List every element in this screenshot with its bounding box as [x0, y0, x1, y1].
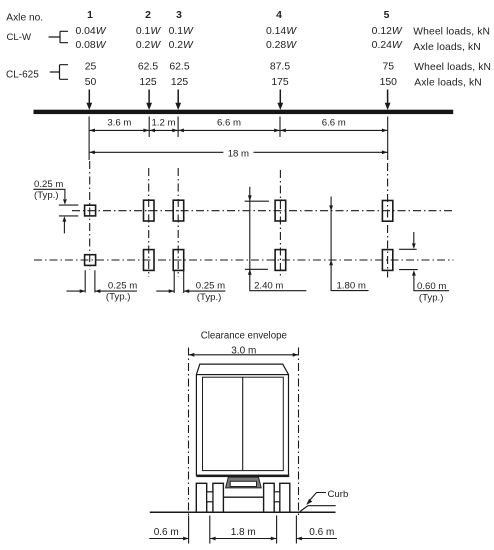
- svg-text:0.6 m: 0.6 m: [309, 527, 334, 538]
- dimension 1.2 m: [149, 117, 178, 132]
- dimension 6.6 m (4-5): [280, 117, 388, 132]
- truck outer box: [196, 375, 288, 476]
- clearance envelope line right: [298, 348, 300, 517]
- svg-text:Curb: Curb: [328, 489, 349, 500]
- svg-text:3: 3: [176, 10, 182, 21]
- dimension 0.25 m (Typ.) below axle 1: [67, 270, 138, 302]
- load arrow axle 4: [277, 90, 283, 111]
- dimension 0.6 m right: [296, 527, 337, 541]
- wheel rear left outer: [196, 483, 206, 512]
- tick at axle 3: [177, 117, 179, 138]
- svg-text:125: 125: [139, 77, 157, 88]
- wheel axle5 lower: [382, 250, 392, 271]
- svg-text:CL-W: CL-W: [7, 32, 32, 43]
- svg-text:CL-625: CL-625: [6, 70, 39, 81]
- svg-text:5: 5: [384, 10, 390, 21]
- axle housing trapezoid: [226, 477, 262, 488]
- dimension 1.8 m: [210, 527, 277, 541]
- dimension 3.6 m: [89, 117, 149, 132]
- truck door divider: [242, 377, 244, 470]
- wheel axle1 lower (square): [85, 255, 96, 266]
- svg-text:6.6 m: 6.6 m: [322, 117, 346, 128]
- curb label and leader: [306, 489, 348, 505]
- wheel axle2 lower: [144, 250, 155, 271]
- dimension 0.25 m (Typ.) below axle 3: [156, 270, 225, 303]
- svg-text:Axle loads, kN: Axle loads, kN: [414, 78, 482, 89]
- svg-text:125: 125: [171, 77, 189, 88]
- svg-text:0.04W: 0.04W: [75, 26, 106, 37]
- tick at axle 2: [148, 117, 150, 138]
- axle 3 centerline (vertical): [177, 168, 179, 277]
- axle bar: [223, 496, 263, 498]
- lower wheel line centerline: [34, 259, 454, 261]
- CL-W wheel loads row: [75, 26, 402, 37]
- svg-text:0.2W: 0.2W: [136, 40, 161, 51]
- svg-text:62.5: 62.5: [169, 61, 189, 72]
- curb: [300, 506, 336, 512]
- svg-text:0.08W: 0.08W: [75, 40, 106, 51]
- dimension 0.25 m (Typ.) upper-left: [33, 179, 78, 233]
- axle 1 centerline (vertical): [89, 161, 91, 270]
- ground line: [150, 511, 336, 513]
- wheel rear left inner: [213, 483, 224, 512]
- svg-text:0.28W: 0.28W: [266, 40, 297, 51]
- svg-text:(Typ.): (Typ.): [106, 292, 131, 303]
- svg-text:175: 175: [271, 77, 289, 88]
- wheel axle4 lower: [275, 250, 286, 271]
- svg-text:Wheel loads, kN: Wheel loads, kN: [414, 62, 491, 73]
- svg-text:87.5: 87.5: [270, 61, 290, 72]
- svg-text:(Typ.): (Typ.): [197, 292, 222, 303]
- upper wheel line centerline: [72, 210, 454, 212]
- svg-text:1.80 m: 1.80 m: [337, 281, 366, 292]
- svg-text:150: 150: [380, 77, 398, 88]
- CL-W axle loads row: [75, 40, 402, 51]
- extension line right wheel center: [276, 516, 278, 544]
- svg-text:0.1W: 0.1W: [136, 26, 161, 37]
- svg-text:0.1W: 0.1W: [169, 26, 194, 37]
- CL-625 bracket: [50, 65, 68, 80]
- svg-text:6.6 m: 6.6 m: [217, 117, 241, 128]
- wheel axle4 upper: [275, 200, 286, 221]
- svg-text:75: 75: [383, 61, 395, 72]
- CL-625 axle loads row: [85, 77, 397, 88]
- hub right: [274, 492, 280, 502]
- wheel axle1 upper (square): [85, 205, 96, 216]
- svg-text:1.2 m: 1.2 m: [152, 117, 176, 128]
- svg-text:Wheel loads, kN: Wheel loads, kN: [413, 27, 490, 38]
- load arrow axle 2: [146, 90, 152, 111]
- extension line left wheel center: [209, 516, 211, 544]
- dimension 6.6 m (3-4): [178, 117, 280, 132]
- axle 2 centerline (vertical): [148, 168, 150, 277]
- svg-text:1.8 m: 1.8 m: [231, 527, 256, 538]
- svg-text:0.60 m: 0.60 m: [417, 281, 446, 292]
- truck floor (thick): [196, 475, 289, 478]
- dimension 18 m: [89, 148, 388, 159]
- axle 4 centerline (vertical): [279, 170, 281, 278]
- svg-text:Axle no.: Axle no.: [6, 12, 43, 23]
- truck inner box: [203, 377, 284, 470]
- wheel axle3 upper: [173, 200, 184, 221]
- beam (deck line): [34, 110, 454, 114]
- svg-text:Clearance envelope: Clearance envelope: [201, 330, 287, 341]
- CL-625 wheel loads row: [85, 61, 395, 72]
- svg-text:0.25 m: 0.25 m: [108, 281, 137, 292]
- wheel rear right outer: [280, 483, 290, 512]
- svg-text:2.40 m: 2.40 m: [254, 281, 283, 292]
- svg-text:0.25 m: 0.25 m: [34, 179, 63, 190]
- dimension 0.60 m (Typ.): [399, 232, 449, 303]
- svg-text:0.12W: 0.12W: [372, 26, 403, 37]
- wheel axle5 upper: [382, 201, 392, 222]
- svg-text:3.6 m: 3.6 m: [107, 117, 131, 128]
- svg-text:0.25 m: 0.25 m: [196, 281, 225, 292]
- wheel axle2 upper: [144, 200, 155, 221]
- svg-text:Axle loads, kN: Axle loads, kN: [413, 42, 481, 53]
- svg-text:18 m: 18 m: [228, 148, 249, 159]
- load arrow axle 3: [175, 90, 181, 111]
- svg-text:25: 25: [85, 61, 97, 72]
- svg-text:62.5: 62.5: [138, 61, 158, 72]
- dimension line 3.0 m: [189, 353, 299, 357]
- dimension 1.80 m: [329, 197, 368, 292]
- svg-text:(Typ.): (Typ.): [34, 190, 59, 201]
- clearance envelope line left: [188, 348, 190, 517]
- axle housing inner white box: [230, 481, 256, 486]
- tick at axle 5: [387, 117, 389, 161]
- svg-text:0.6 m: 0.6 m: [154, 527, 179, 538]
- tick at axle 4: [279, 117, 281, 138]
- svg-text:2: 2: [145, 10, 151, 21]
- extension line right envelope: [295, 516, 297, 544]
- wheel rear right inner: [264, 483, 275, 512]
- extension line left envelope (bottom dims): [188, 516, 190, 544]
- wheel axle3 lower: [173, 250, 184, 271]
- svg-text:0.24W: 0.24W: [372, 40, 403, 51]
- load arrow axle 1: [86, 90, 92, 111]
- load arrow axle 5: [385, 90, 391, 111]
- dimension 2.40 m: [245, 187, 307, 292]
- dimension 0.6 m left: [149, 527, 188, 541]
- truck roof: [196, 364, 288, 375]
- svg-text:50: 50: [85, 77, 97, 88]
- CL-W bracket: [49, 31, 68, 42]
- svg-text:0.14W: 0.14W: [266, 26, 297, 37]
- svg-text:1: 1: [87, 10, 93, 21]
- svg-text:4: 4: [276, 10, 282, 21]
- hub left: [207, 492, 213, 502]
- axle 5 centerline (vertical): [387, 163, 389, 278]
- svg-text:(Typ.): (Typ.): [419, 292, 444, 303]
- svg-text:0.2W: 0.2W: [169, 40, 194, 51]
- tick at axle 1: [88, 117, 90, 161]
